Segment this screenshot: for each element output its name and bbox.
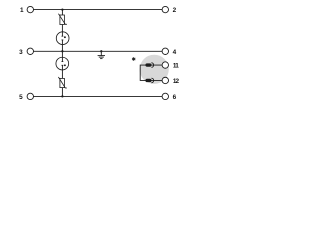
terminal 5 (27, 93, 33, 99)
wire branch top rail to varistor 1 (61, 10, 63, 16)
gas discharge tube 2 envelope (56, 57, 69, 70)
gas discharge tube 1 bottom electrode (62, 40, 64, 45)
gas discharge tube 2 top electrode (62, 57, 64, 62)
wire varistor 1 to gas discharge tube 1 (61, 25, 63, 33)
remote contact plug 12 (145, 79, 151, 82)
ground bar 1 (98, 55, 105, 57)
varistor 1 diagonal stroke (58, 14, 67, 25)
terminal 12 (162, 77, 168, 83)
svg-text:2: 2 (173, 7, 177, 14)
svg-text:1: 1 (20, 7, 24, 14)
node junction ground (100, 50, 102, 52)
svg-text:4: 4 (173, 49, 177, 56)
terminal 11 (162, 62, 168, 68)
remote contact U wire (140, 65, 162, 80)
terminal 6 (162, 93, 168, 99)
terminal 4 (162, 48, 168, 54)
node junction middle rail (61, 50, 63, 52)
wire top rail (terminal 1 to terminal 2) (33, 9, 162, 11)
wire varistor 2 to bottom rail (61, 88, 63, 97)
wire gas discharge tube 2 to varistor 2 (61, 70, 63, 79)
gas discharge tube 1 gas dot (64, 36, 66, 38)
gas discharge tube 2 bottom electrode (62, 65, 64, 70)
gas discharge tube 2 gas dot (64, 64, 66, 66)
node junction bottom rail (61, 95, 63, 97)
remote contact socket 12 (151, 78, 153, 83)
svg-text:5: 5 (19, 94, 23, 101)
terminal 2 (162, 6, 168, 12)
node junction top rail (61, 8, 63, 10)
varistor 2 diagonal stroke (58, 77, 67, 88)
gas discharge tube 1 envelope (56, 32, 69, 45)
svg-text:6: 6 (173, 94, 177, 101)
wire middle rail (terminal 3 to terminal 4) (33, 50, 162, 52)
svg-text:3: 3 (19, 49, 23, 56)
terminal 1 (27, 6, 33, 12)
remote contact plug 11 (145, 63, 151, 66)
gas discharge tube 1 top electrode (62, 32, 64, 37)
varistor 1 body (60, 15, 65, 25)
svg-text:12: 12 (173, 78, 180, 85)
varistor 2 body (60, 78, 65, 87)
ground bar 2 (99, 56, 104, 58)
wire middle rail to gas discharge tube 2 (61, 51, 63, 57)
ground bar 3 (100, 58, 102, 60)
svg-text:11: 11 (173, 63, 179, 70)
terminal 3 (27, 48, 33, 54)
protective circuit shading (140, 55, 169, 84)
asterisk marker (132, 57, 135, 61)
wire gas discharge tube 1 to middle rail (61, 45, 63, 52)
remote contact socket 11 (151, 63, 153, 68)
wire bottom rail (terminal 5 to terminal 6) (33, 95, 162, 97)
ground stem (100, 51, 102, 55)
